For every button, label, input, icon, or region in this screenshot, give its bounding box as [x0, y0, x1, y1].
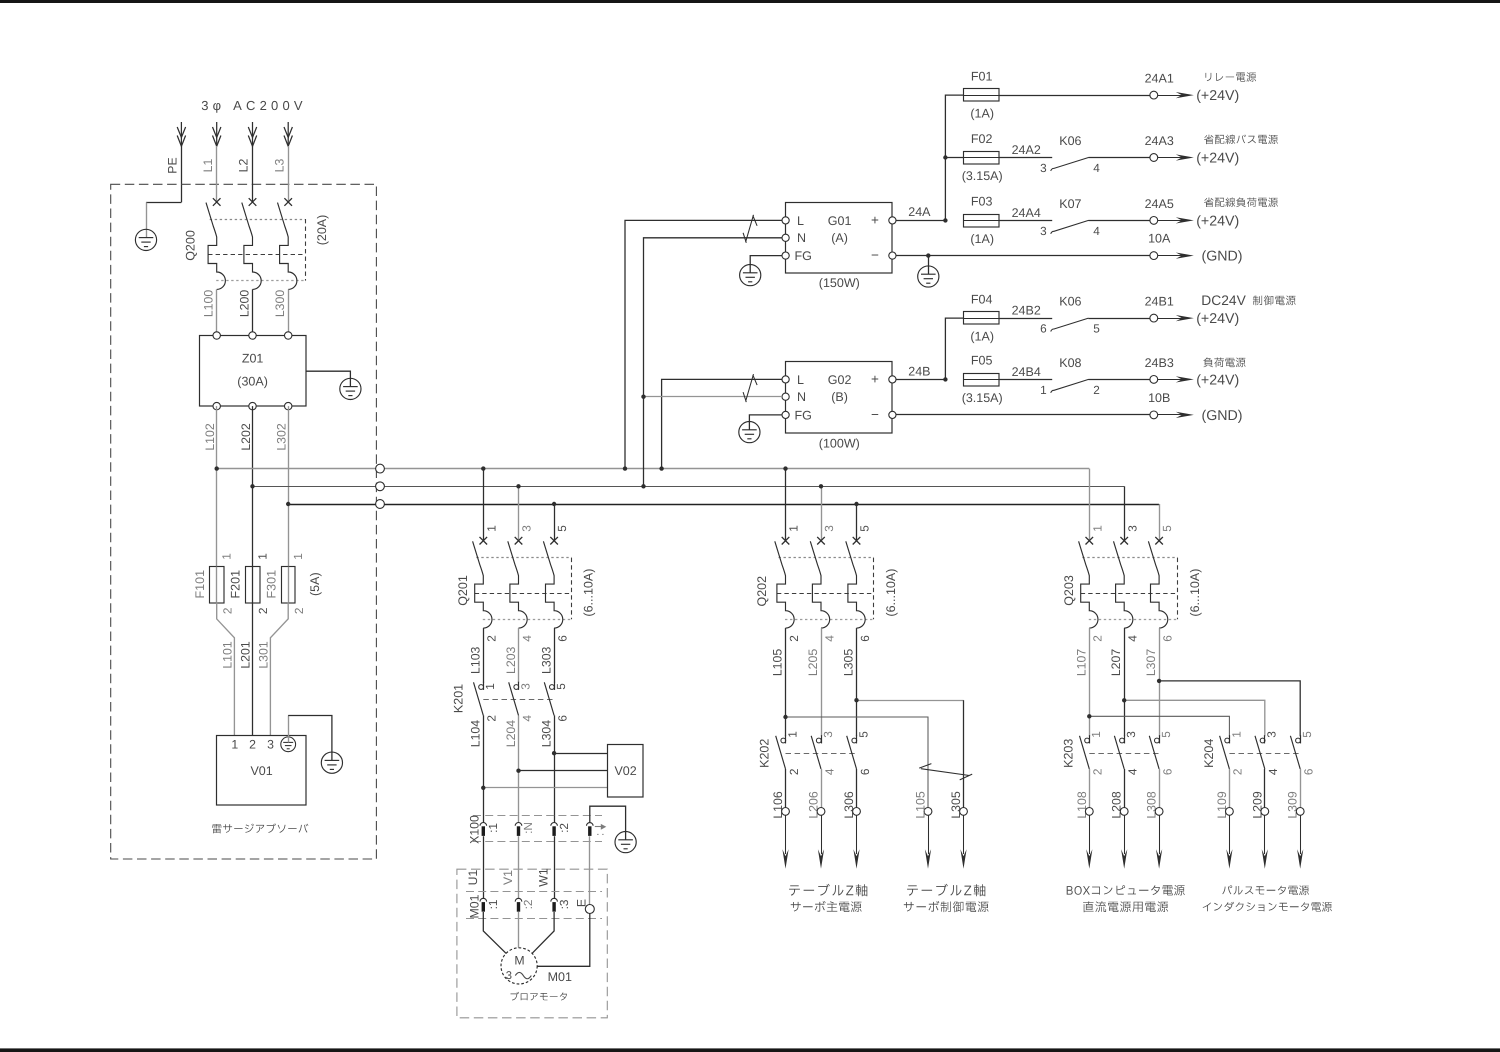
svg-text:K202: K202 — [758, 739, 772, 768]
svg-text:(+24V): (+24V) — [1196, 372, 1239, 388]
svg-text:Q201: Q201 — [456, 575, 470, 606]
wire Q202 pole1 from bus1 — [785, 469, 787, 541]
terminal G02 left — [782, 393, 789, 400]
svg-text:(30A): (30A) — [237, 374, 268, 388]
node bus1-L102 — [215, 466, 219, 470]
wire phase drop — [288, 146, 290, 202]
svg-text:W1: W1 — [537, 868, 551, 887]
terminal L305 — [960, 808, 968, 816]
svg-text:Q202: Q202 — [755, 576, 769, 607]
svg-text:L101: L101 — [221, 641, 235, 669]
svg-text:(150W): (150W) — [819, 276, 860, 290]
label リレー電源 — [1206, 72, 1257, 81]
wire PE down — [181, 146, 183, 202]
bushing circle bus2 — [376, 482, 385, 491]
svg-text:L207: L207 — [1109, 649, 1123, 677]
svg-text:L202: L202 — [239, 423, 253, 451]
wire V01 earth — [288, 716, 290, 743]
svg-text:L: L — [797, 373, 804, 387]
wire L309 — [1300, 769, 1302, 808]
svg-text:3: 3 — [1040, 224, 1047, 238]
svg-text:5: 5 — [858, 525, 872, 532]
svg-text:L305: L305 — [842, 649, 856, 677]
terminal G02 + — [889, 376, 896, 383]
wire L201 — [252, 603, 254, 736]
svg-text:V1: V1 — [501, 870, 515, 885]
svg-text:(1A): (1A) — [970, 232, 994, 246]
svg-text:1: 1 — [255, 553, 269, 560]
svg-text:L305: L305 — [949, 791, 963, 819]
svg-text:10A: 10A — [1148, 231, 1171, 245]
wire L208 — [1124, 769, 1126, 808]
svg-text:(+24V): (+24V) — [1196, 88, 1239, 104]
wire Q203 pole3 from bus3 — [1159, 504, 1161, 541]
svg-text:24A1: 24A1 — [1145, 71, 1174, 85]
terminal Z01 bottom — [249, 402, 256, 409]
svg-text:3: 3 — [822, 525, 836, 532]
svg-text:(1A): (1A) — [970, 330, 994, 344]
svg-text:5: 5 — [1160, 525, 1174, 532]
wire L307 branch — [1159, 681, 1300, 736]
wire L304 — [554, 715, 556, 822]
svg-text::N: :N — [521, 822, 535, 834]
svg-text:Q203: Q203 — [1062, 575, 1076, 606]
terminal G01 + — [889, 217, 896, 224]
svg-text:4: 4 — [1093, 161, 1100, 175]
fuse F301 — [282, 567, 296, 604]
varistor V02 box — [608, 745, 644, 798]
svg-text:1: 1 — [291, 553, 305, 560]
wire L109 — [1229, 769, 1231, 808]
wire Q202 pole3 from bus3 — [856, 504, 858, 541]
border frame top — [0, 0, 1500, 3]
wire L103 — [483, 628, 485, 683]
svg-text:N: N — [797, 390, 806, 404]
input arrow L1 — [213, 122, 221, 146]
lightning mark G01 input — [743, 215, 757, 243]
wire contact to terminal — [1089, 318, 1150, 320]
terminal G01 left — [782, 252, 789, 259]
svg-text:1: 1 — [1229, 731, 1243, 738]
svg-text:F05: F05 — [971, 354, 993, 368]
svg-text:L105: L105 — [771, 649, 785, 677]
wire L309 arrow — [1300, 815, 1302, 854]
wire L203 — [518, 628, 520, 683]
svg-text:6: 6 — [1302, 768, 1316, 775]
terminal L308 — [1155, 808, 1163, 816]
wire L304 to V02 — [554, 753, 608, 755]
ground PE — [135, 229, 156, 250]
wire G02 + output — [896, 379, 946, 381]
wire L208 arrow — [1124, 815, 1126, 854]
arrow +24V — [1158, 95, 1184, 97]
label surge absorber jp — [212, 823, 308, 833]
connector pin M01:3 — [551, 898, 558, 901]
terminal G01 left — [782, 217, 789, 224]
svg-text:6: 6 — [555, 715, 569, 722]
svg-text:1: 1 — [483, 683, 497, 690]
wire Q201 pole3 from bus3 — [554, 504, 556, 541]
svg-text:L204: L204 — [504, 720, 518, 748]
svg-text:2: 2 — [485, 715, 499, 722]
wire L308 — [1159, 769, 1161, 808]
svg-text:24A4: 24A4 — [1012, 206, 1041, 220]
bus line 2 — [253, 486, 1125, 488]
svg-text:2: 2 — [249, 737, 256, 751]
wire L106 — [785, 769, 787, 808]
node bus3-L302 — [286, 502, 290, 506]
circuit breaker Q201 — [473, 537, 572, 628]
wire U1 to motor — [483, 912, 506, 954]
svg-text:1: 1 — [1040, 383, 1047, 397]
wire G02 FG — [749, 415, 782, 430]
relay contact K07 — [1051, 220, 1089, 233]
node L107 branch — [1087, 714, 1091, 718]
wire L206 arrow — [821, 815, 823, 854]
wire L105 branch — [786, 717, 929, 808]
svg-text:G01: G01 — [828, 214, 852, 228]
svg-text:L300: L300 — [273, 290, 287, 318]
wire fuse to terminal — [999, 95, 1150, 97]
input arrow L2 — [248, 122, 256, 146]
arrow +24V — [1158, 379, 1184, 381]
wire L301 — [270, 603, 288, 736]
arrow +24V — [1158, 318, 1184, 320]
svg-text:2: 2 — [1093, 383, 1100, 397]
terminal L209 — [1261, 808, 1269, 816]
svg-text:F03: F03 — [971, 195, 993, 209]
contactor K204 — [1220, 735, 1301, 769]
svg-text:4: 4 — [1126, 635, 1140, 642]
svg-text:(+24V): (+24V) — [1196, 150, 1239, 166]
svg-text:L100: L100 — [202, 290, 216, 318]
node bus3-Q202 — [854, 502, 858, 506]
wire 24A branch vertical — [945, 95, 963, 220]
wire L101 — [217, 603, 235, 736]
bus line 3 — [288, 504, 1159, 506]
svg-text:3: 3 — [520, 525, 534, 532]
svg-text:2: 2 — [1091, 635, 1105, 642]
connector pin M01:1 — [480, 898, 487, 901]
svg-text:V01: V01 — [250, 764, 272, 778]
svg-text:(+24V): (+24V) — [1196, 311, 1239, 327]
svg-text:(3.15A): (3.15A) — [962, 169, 1003, 183]
node L207 branch — [1122, 698, 1126, 702]
relay contact K06 — [1051, 318, 1089, 331]
svg-text:(GND): (GND) — [1202, 249, 1243, 265]
svg-text:24B1: 24B1 — [1145, 294, 1174, 308]
power supply G01 box — [786, 203, 893, 274]
wire contact to terminal — [1089, 379, 1150, 381]
lightning mark G02 input — [743, 374, 757, 402]
svg-text:+: + — [871, 212, 879, 227]
node G01 - earth — [926, 253, 930, 257]
wire 24B branch vertical — [945, 318, 963, 379]
svg-text:1: 1 — [787, 525, 801, 532]
terminal Z01 top — [249, 332, 256, 339]
svg-text:(20A): (20A) — [315, 215, 329, 246]
svg-text:K07: K07 — [1059, 197, 1081, 211]
svg-text:L307: L307 — [1144, 649, 1158, 677]
wire L200 — [252, 289, 254, 335]
svg-text:Q200: Q200 — [183, 230, 197, 261]
svg-text:(100W): (100W) — [819, 436, 860, 450]
svg-text:6: 6 — [858, 635, 872, 642]
ground V01 — [321, 752, 342, 773]
terminal L208 — [1120, 808, 1128, 816]
svg-text:L201: L201 — [239, 641, 253, 669]
wire G02 - output — [896, 414, 1150, 416]
svg-text::1: :1 — [486, 900, 500, 910]
wire E to motor — [537, 914, 590, 967]
svg-text:U1: U1 — [466, 869, 480, 885]
wire F03 to contact — [999, 220, 1053, 222]
svg-text:PE: PE — [166, 157, 180, 173]
wire G01 L input — [625, 220, 782, 468]
wire L302 — [288, 406, 290, 566]
svg-text:6: 6 — [1040, 322, 1047, 336]
wire L305 — [856, 628, 858, 736]
node bus2-Q202 — [819, 484, 823, 488]
svg-text:4: 4 — [822, 768, 836, 775]
wire L102 — [216, 406, 218, 566]
svg-text:6: 6 — [555, 635, 569, 642]
svg-text:3: 3 — [267, 737, 274, 751]
fuse F03 — [964, 215, 1000, 228]
wire L300 — [288, 289, 290, 335]
wire L207 branch — [1124, 700, 1265, 736]
terminal Z01 top — [285, 332, 292, 339]
svg-text:F101: F101 — [193, 570, 207, 599]
svg-text:1: 1 — [484, 525, 498, 532]
svg-text:2: 2 — [256, 608, 270, 615]
svg-text:24A: 24A — [908, 205, 931, 219]
wire F02 feed — [945, 157, 963, 159]
surge absorber dashed enclosure — [111, 184, 377, 859]
svg-text:−: − — [871, 248, 879, 263]
svg-text:24A3: 24A3 — [1145, 134, 1174, 148]
terminal 24B3 — [1150, 376, 1158, 384]
wire L308 arrow — [1159, 815, 1161, 854]
svg-text:L301: L301 — [257, 641, 271, 669]
svg-text:L102: L102 — [203, 423, 217, 451]
wire L207 — [1124, 628, 1126, 736]
terminal 24A5 — [1150, 217, 1158, 225]
wire contact to terminal — [1089, 157, 1150, 159]
svg-text:X100: X100 — [468, 815, 482, 844]
svg-text:DC24V: DC24V — [1201, 293, 1246, 308]
svg-text:24B3: 24B3 — [1145, 356, 1174, 370]
svg-text:L: L — [797, 214, 804, 228]
relay contact K08 — [1051, 379, 1089, 392]
wire L305 arrow — [963, 815, 965, 854]
svg-text:4: 4 — [1093, 224, 1100, 238]
svg-text:F201: F201 — [229, 570, 243, 599]
svg-text::2: :2 — [557, 823, 571, 833]
svg-text:4: 4 — [822, 635, 836, 642]
wire L202 — [252, 406, 254, 566]
svg-text:3: 3 — [821, 731, 835, 738]
node bus2-L202 — [250, 484, 254, 488]
terminal G02 left — [782, 411, 789, 418]
wire Q203 pole2 from bus2 — [1124, 486, 1126, 540]
svg-text:3: 3 — [1265, 731, 1279, 738]
connector pin X100:N — [515, 823, 522, 826]
svg-text:3: 3 — [1125, 525, 1139, 532]
svg-text:5: 5 — [1159, 731, 1173, 738]
node bus2-Q201 — [516, 484, 520, 488]
contactor K203 — [1080, 735, 1160, 769]
svg-text:24B: 24B — [908, 365, 930, 379]
wire contact to terminal — [1089, 220, 1150, 222]
power supply G02 box — [786, 362, 893, 434]
wire L105 — [785, 628, 787, 736]
ground G01 - — [918, 266, 939, 287]
wire L204 to V02 — [519, 770, 608, 772]
terminal L106 — [782, 808, 790, 816]
wire L107 — [1089, 628, 1091, 736]
arrow GND — [1158, 414, 1184, 416]
label table Z axis servo control jp — [907, 884, 985, 897]
wire U1 — [483, 836, 485, 899]
svg-text:(6...10A): (6...10A) — [884, 569, 898, 617]
svg-text:L105: L105 — [914, 791, 928, 819]
fuse F02 — [964, 152, 1000, 165]
svg-text:E: E — [574, 899, 588, 907]
wire phase drop — [252, 146, 254, 202]
svg-text:5: 5 — [1300, 731, 1314, 738]
svg-text:1: 1 — [231, 737, 238, 751]
svg-text:K06: K06 — [1059, 294, 1081, 308]
svg-text::: : — [593, 833, 607, 836]
terminal Z01 bottom — [285, 402, 292, 409]
svg-text:L203: L203 — [504, 646, 518, 674]
wire L104 — [483, 715, 485, 822]
fuse F201 — [246, 567, 261, 604]
svg-text:(6...10A): (6...10A) — [1188, 569, 1202, 617]
svg-text:4: 4 — [520, 635, 534, 642]
connector pin X100:2 — [551, 822, 558, 825]
input arrow PE — [177, 122, 185, 146]
wire L100 — [216, 289, 218, 335]
terminal E — [585, 905, 594, 914]
terminal GND — [1150, 411, 1158, 419]
arrow +24V — [1158, 220, 1184, 222]
node bus1-Q202 — [783, 466, 787, 470]
input arrow L3 — [284, 122, 292, 146]
svg-text:FG: FG — [795, 408, 812, 422]
label 負荷電源 — [1203, 357, 1245, 367]
svg-text:5: 5 — [555, 525, 569, 532]
bushing circle bus3 — [376, 500, 385, 509]
svg-text:−: − — [871, 407, 879, 422]
svg-text:(GND): (GND) — [1202, 408, 1243, 424]
wire F02 to contact — [999, 157, 1053, 159]
wire L205 — [821, 628, 823, 736]
node L105 branch — [783, 715, 787, 719]
wire L303 — [554, 628, 556, 683]
label blower motor jp — [511, 992, 568, 1001]
svg-text:2: 2 — [787, 769, 801, 776]
wire L209 arrow — [1264, 815, 1266, 854]
wire G01 + output — [896, 220, 946, 222]
svg-text:3φ AC200V: 3φ AC200V — [201, 98, 307, 113]
svg-text:L104: L104 — [469, 720, 483, 748]
svg-text:FG: FG — [795, 249, 812, 263]
wire L107 branch — [1089, 716, 1229, 736]
svg-text:24A2: 24A2 — [1012, 143, 1041, 157]
svg-text:N: N — [797, 231, 806, 245]
terminal G02 - — [889, 411, 896, 418]
bus line 1 — [217, 468, 1090, 470]
terminal GND — [1150, 252, 1158, 260]
terminal earth glyph — [281, 737, 296, 752]
label pulse motor power jp — [1222, 885, 1309, 895]
terminal Z01 top — [213, 332, 220, 339]
wire L307 — [1159, 628, 1161, 736]
svg-text:4: 4 — [520, 715, 534, 722]
svg-text:5: 5 — [554, 683, 568, 690]
svg-text:K203: K203 — [1061, 739, 1075, 768]
terminal 24B1 — [1150, 314, 1158, 322]
svg-text:G02: G02 — [828, 373, 852, 387]
wire Q203 pole1 from bus1 — [1089, 469, 1091, 541]
svg-text:3: 3 — [506, 970, 512, 982]
connector pin M01:2 — [515, 898, 522, 901]
svg-text:M01: M01 — [548, 970, 572, 984]
svg-text:3: 3 — [518, 683, 532, 690]
svg-text:+: + — [871, 371, 879, 386]
terminal L108 — [1085, 808, 1093, 816]
svg-text:6: 6 — [1160, 635, 1174, 642]
svg-text::3: :3 — [557, 899, 571, 909]
connector M01 dashed rows — [466, 891, 602, 893]
svg-text:M: M — [514, 954, 524, 968]
wire L109 arrow — [1229, 815, 1231, 854]
terminal L309 — [1296, 808, 1304, 816]
svg-text::1: :1 — [486, 823, 500, 833]
node bus3-Q201 — [552, 502, 556, 506]
wire V1 to motor — [518, 912, 520, 948]
wire L206 — [821, 769, 823, 808]
ground X100 — [615, 832, 636, 853]
node L305 branch — [854, 698, 858, 702]
ground G02 FG — [739, 422, 760, 443]
svg-text:K204: K204 — [1202, 739, 1216, 768]
svg-text:M01: M01 — [468, 894, 482, 918]
wire W1 — [554, 836, 556, 899]
contactor K202 — [776, 735, 857, 769]
bushing circle bus1 — [376, 464, 385, 473]
wire L306 arrow — [856, 815, 858, 854]
wire G02 N input — [644, 396, 783, 398]
node 24A branch — [943, 218, 947, 222]
svg-text:(A): (A) — [831, 231, 848, 245]
svg-text:4: 4 — [1266, 768, 1280, 775]
wire L108 — [1089, 769, 1091, 808]
lightning crossing mark — [919, 764, 972, 780]
arrow +24V — [1158, 157, 1184, 159]
relay contact K06 — [1051, 158, 1089, 171]
fuse F05 — [964, 374, 1000, 387]
svg-text:3: 3 — [1040, 161, 1047, 175]
terminal G02 left — [782, 376, 789, 383]
wire G02 L input — [662, 379, 782, 468]
wire Z01 earth stub — [306, 371, 351, 386]
terminal 24A3 — [1150, 154, 1158, 162]
svg-text:K08: K08 — [1059, 356, 1081, 370]
circuit breaker Q203 — [1079, 537, 1178, 628]
